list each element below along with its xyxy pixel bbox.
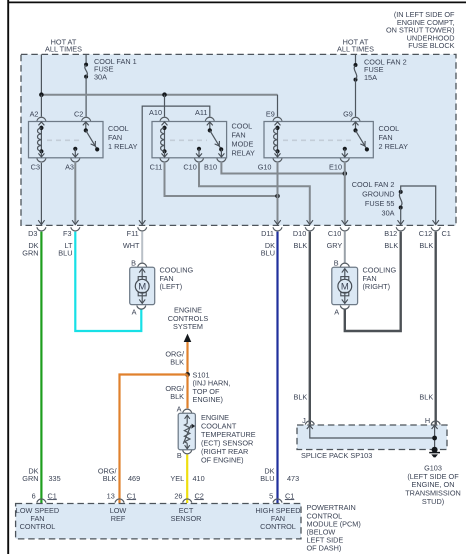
svg-text:BLU: BLU — [58, 248, 72, 257]
pin label 13 + connector C1 — [107, 491, 136, 500]
svg-text:F11: F11 — [127, 229, 139, 238]
ground G103 symbol — [429, 447, 440, 458]
relay K3 contact pin E10 — [342, 147, 348, 157]
svg-text:15A: 15A — [364, 73, 377, 82]
svg-text:B: B — [334, 259, 339, 268]
svg-text:F3: F3 — [63, 229, 72, 238]
svg-text:BLK: BLK — [170, 392, 184, 401]
connector arc J — [305, 421, 314, 425]
svg-text:H: H — [425, 416, 430, 425]
svg-text:2 RELAY: 2 RELAY — [379, 142, 409, 151]
connector arc PCM pin 26 — [183, 499, 192, 503]
svg-text:GRY: GRY — [327, 241, 343, 250]
connector arc F3 — [71, 227, 80, 231]
wire: ORG/BLK from engine controls to S101 — [186, 342, 188, 375]
connector arc B (ECT) — [183, 450, 192, 454]
wire: splice internal J leg — [307, 425, 435, 438]
svg-text:GRN: GRN — [22, 474, 38, 483]
svg-text:C2: C2 — [195, 491, 204, 500]
connector arc C10 (bottom) — [340, 227, 349, 231]
relay K2 mechanical link (dashed) — [170, 139, 207, 141]
svg-text:ENGINE): ENGINE) — [193, 395, 223, 404]
svg-text:SYSTEM: SYSTEM — [173, 322, 203, 331]
svg-text:C12: C12 — [419, 229, 432, 238]
connector arc A (right fan) — [340, 306, 349, 310]
svg-text:469: 469 — [128, 474, 140, 483]
node: C11/G10 junction — [275, 194, 280, 199]
svg-text:BLK: BLK — [419, 241, 433, 250]
svg-text:335: 335 — [49, 474, 61, 483]
connector arc D10 — [305, 227, 314, 231]
wire: ORG/BLK S101 to ECT sensor A — [186, 375, 188, 409]
connector arc G9 — [351, 117, 360, 121]
wire: A2 down to relay 1 — [40, 95, 42, 117]
relay K3 coil — [274, 122, 281, 157]
svg-text:M: M — [138, 282, 146, 293]
wire label ORG/BLK (lower) + circuit 469 — [98, 466, 140, 483]
wire: fuse 1 output down through bus to C2 — [85, 77, 87, 117]
relay K3 switch — [353, 122, 370, 151]
svg-text:B10: B10 — [204, 163, 217, 172]
svg-text:BLK: BLK — [294, 392, 308, 401]
svg-text:GRN: GRN — [22, 248, 38, 257]
connector arc C12 — [431, 227, 440, 231]
svg-text:BLK: BLK — [103, 474, 117, 483]
connector arc C11 — [160, 158, 169, 162]
wire: A3 to F3 — [72, 163, 78, 225]
svg-text:COOL: COOL — [232, 122, 253, 131]
svg-text:B: B — [131, 259, 136, 268]
svg-text:OF DASH): OF DASH) — [307, 544, 342, 553]
page frame top border — [8, 1, 466, 3]
svg-text:WHT: WHT — [123, 241, 140, 250]
svg-text:COOL FAN 2: COOL FAN 2 — [352, 180, 395, 189]
wire: GRY C10 to right fan motor B — [344, 232, 346, 263]
wire label DK BLU (lower) + circuit 473 — [260, 466, 299, 483]
motor M1: cooling fan left — [130, 267, 155, 304]
connector arc A11 — [205, 117, 214, 121]
wire: WHT F11 to left fan motor B — [141, 232, 143, 263]
svg-text:FUSE 55: FUSE 55 — [365, 199, 395, 208]
svg-text:D10: D10 — [293, 229, 306, 238]
wire: YEL ECT B to PCM pin 26 — [186, 455, 188, 503]
svg-text:COOL: COOL — [379, 124, 400, 133]
svg-text:MODE: MODE — [232, 140, 254, 149]
svg-text:A: A — [177, 404, 182, 413]
svg-text:CONTROL: CONTROL — [260, 522, 296, 531]
PCM box — [16, 504, 301, 539]
label: S101 — [193, 370, 231, 404]
connector arc E9 — [273, 117, 282, 121]
wire: C10 (relay) across and down to D10 — [199, 163, 313, 225]
wire: fuse 55 down to B12 — [398, 208, 404, 225]
connector arc PCM pin 6 — [37, 499, 46, 503]
svg-text:CONTROL: CONTROL — [20, 522, 56, 531]
connector arc H — [431, 421, 440, 425]
svg-text:1 RELAY: 1 RELAY — [108, 142, 138, 151]
wire: drop from bus to A10/A11 sub-bus — [164, 95, 166, 117]
relay K2 coil — [161, 122, 168, 157]
wire: ORG/BLK branch S101 to PCM pin 13 — [120, 375, 188, 504]
relay K1 mechanical link (dashed) — [47, 139, 83, 141]
fuse: COOL FAN 1 FUSE 30A — [84, 63, 88, 79]
svg-text:BLK: BLK — [419, 392, 433, 401]
underhood fuse block box — [21, 54, 456, 225]
node: bus junction at A10 drop — [162, 92, 167, 97]
label: hot at all times (left) — [45, 38, 82, 54]
wire label DK BLU (upper) — [261, 241, 275, 258]
connector arc C2 — [82, 117, 91, 121]
connector arc A (ECT) — [183, 409, 192, 413]
wire label DK GRN (lower) + circuit 335 — [22, 466, 60, 483]
wire: hot bus — [41, 94, 277, 96]
svg-text:5: 5 — [269, 491, 273, 500]
svg-text:(RIGHT): (RIGHT) — [363, 282, 391, 291]
relay K3 mechanical link (dashed) — [283, 139, 352, 141]
label: cooling fan right — [363, 266, 397, 292]
wire: sub-bus to F11 and A11 — [142, 106, 210, 117]
label: ECT sensor — [201, 413, 256, 465]
svg-text:YEL: YEL — [170, 474, 184, 483]
svg-text:30A: 30A — [382, 208, 395, 217]
label: cool fan 1 relay — [108, 124, 138, 151]
svg-text:(LEFT): (LEFT) — [160, 282, 183, 291]
svg-text:A11: A11 — [195, 108, 207, 117]
connector arc B12 — [396, 227, 405, 231]
svg-text:C10: C10 — [328, 229, 341, 238]
ECT sensor box — [178, 413, 195, 450]
wire: LT BLU F3 to left fan motor A — [75, 232, 141, 331]
relay K1 contact pin A3 — [72, 147, 78, 157]
wire: splice internal H leg — [432, 425, 438, 449]
svg-text:E10: E10 — [329, 163, 342, 172]
svg-text:C11: C11 — [150, 163, 163, 172]
relay K1 coil — [38, 122, 45, 157]
label: cool fan 2 relay — [379, 124, 409, 151]
svg-text:C1: C1 — [48, 491, 57, 500]
svg-text:M: M — [341, 282, 349, 293]
connector arc C3 — [37, 158, 46, 162]
label: engine controls system — [168, 306, 209, 332]
node: splice S101 — [185, 372, 190, 377]
fuse: COOL FAN 2 GROUND FUSE 55 30A — [399, 190, 403, 210]
connector arc D11 — [273, 227, 282, 231]
node: B10/E10 junction — [343, 171, 348, 176]
connector arc B (right fan) — [340, 263, 349, 267]
svg-text:G9: G9 — [343, 110, 353, 119]
relay K2 switch — [207, 122, 225, 157]
svg-text:A: A — [334, 308, 339, 317]
splice pack SP103 box — [297, 425, 447, 450]
svg-text:C1: C1 — [285, 491, 294, 500]
svg-text:410: 410 — [193, 474, 205, 483]
wire: B10 across to E10 column — [221, 163, 344, 174]
wire: BLK C12 to splice pack H — [435, 232, 437, 425]
label: cool fan 2 ground fuse — [352, 180, 395, 218]
svg-text:ALL TIMES: ALL TIMES — [45, 45, 82, 54]
label: powertrain control module — [307, 503, 361, 553]
relay K2 contact pin C10 — [196, 147, 202, 157]
svg-text:26: 26 — [174, 491, 182, 500]
svg-text:A2: A2 — [30, 110, 39, 119]
connector arc C10 (relay) — [195, 158, 204, 162]
wire label DK GRN (upper) — [22, 241, 38, 258]
svg-text:B12: B12 — [384, 229, 397, 238]
wire: bus drop to E9 — [277, 95, 279, 117]
svg-text:G10: G10 — [258, 163, 272, 172]
svg-text:BLK: BLK — [170, 358, 184, 367]
connector arc A10 — [160, 117, 169, 121]
wire: DK GRN D3 to PCM pin 6 — [40, 232, 42, 503]
relay K1 box: COOL FAN 1 RELAY — [29, 122, 104, 158]
svg-text:B: B — [177, 451, 182, 460]
label: cooling fan left — [160, 266, 194, 292]
wire label ORG/BLK (below S101) — [165, 384, 185, 401]
wire: C12 feed over fuse 55 — [401, 186, 439, 225]
label: G103 ground location — [405, 463, 461, 506]
pin label 26 + connector C2 — [174, 491, 203, 500]
svg-text:E9: E9 — [266, 110, 275, 119]
connector arc PCM pin 13 — [115, 499, 124, 503]
arrow: to engine controls system — [184, 334, 192, 342]
svg-text:C3: C3 — [31, 163, 40, 172]
svg-text:D11: D11 — [261, 229, 274, 238]
wire: battery feed into fuse 2 — [355, 54, 357, 65]
relay K3 box: COOL FAN 2 RELAY — [264, 122, 373, 158]
node: splice junction — [432, 436, 437, 441]
svg-text:BLK: BLK — [294, 241, 308, 250]
wire: battery feed to A2 — [40, 54, 42, 94]
wire: DK BLU D11 to PCM pin 5 — [276, 232, 278, 503]
svg-text:FUSE BLOCK: FUSE BLOCK — [408, 41, 454, 50]
pin label 6 + connector C1 — [32, 491, 57, 500]
label: cool fan 2 fuse — [364, 57, 407, 82]
node: bus junction at A2 — [39, 92, 44, 97]
svg-text:FAN: FAN — [232, 131, 246, 140]
connector arc A2 — [37, 117, 46, 121]
wire: BLK D10 to splice pack J — [309, 232, 311, 425]
wire label YEL + circuit 410 — [170, 474, 204, 483]
pin label 5 + connector C1 — [269, 491, 294, 500]
svg-text:BLU: BLU — [261, 248, 275, 257]
svg-text:C10: C10 — [183, 163, 196, 172]
label: cool fan mode relay — [232, 122, 256, 158]
wire label LT BLU (upper) — [58, 241, 73, 258]
svg-text:473: 473 — [287, 474, 299, 483]
svg-text:BLK: BLK — [384, 241, 398, 250]
motor M2: cooling fan right — [332, 267, 358, 304]
wire: BLK right fan motor A to B12 — [345, 232, 401, 331]
svg-text:SENSOR: SENSOR — [171, 514, 202, 523]
svg-text:BLU: BLU — [260, 474, 274, 483]
connector arc F11 — [138, 227, 147, 231]
label: underhood fuse block location — [386, 10, 455, 50]
svg-text:C2: C2 — [74, 110, 83, 119]
wire label ORG/BLK (above S101) — [165, 350, 185, 367]
svg-text:SPLICE PACK SP103: SPLICE PACK SP103 — [301, 451, 372, 460]
svg-text:GROUND: GROUND — [362, 189, 394, 198]
svg-text:13: 13 — [107, 491, 115, 500]
svg-text:6: 6 — [32, 491, 36, 500]
connector arc B (left fan) — [138, 263, 147, 267]
relay K2 box: COOL FAN MODE RELAY — [152, 122, 227, 158]
wire: fuse 2 output down to G9 — [355, 80, 357, 117]
page frame left border — [7, 0, 9, 554]
svg-text:FAN: FAN — [379, 133, 393, 142]
label: low speed fan control — [16, 506, 59, 531]
wire: battery feed into fuse 1 — [85, 54, 87, 64]
label: ect sensor input — [171, 506, 202, 523]
label: hot at all times (right) — [337, 38, 374, 54]
wire: C11 across to G10 column — [165, 163, 278, 196]
svg-text:RELAY: RELAY — [232, 149, 256, 158]
svg-text:A: A — [132, 308, 137, 317]
wire: G10 down to D11 — [274, 163, 280, 225]
label: low ref — [110, 506, 127, 523]
label: cool fan 1 fuse — [94, 57, 137, 82]
svg-text:A3: A3 — [65, 163, 74, 172]
svg-text:A10: A10 — [149, 108, 162, 117]
wire: sub-bus to F11 — [139, 116, 145, 225]
wire: E10 down to C10 connector — [342, 163, 348, 225]
label: high speed fan control — [255, 506, 300, 531]
connector arc D3 — [37, 227, 46, 231]
svg-text:30A: 30A — [94, 72, 107, 81]
connector arc A (left fan) — [137, 306, 146, 310]
connector arc A3 — [71, 158, 80, 162]
svg-text:C1: C1 — [127, 491, 136, 500]
connector arc E10 — [340, 158, 349, 162]
connector arc B10 — [217, 158, 226, 162]
svg-text:OF ENGINE): OF ENGINE) — [201, 455, 244, 464]
svg-text:REF: REF — [111, 514, 126, 523]
svg-text:STUD): STUD) — [422, 497, 444, 506]
svg-text:ALL TIMES: ALL TIMES — [337, 45, 374, 54]
svg-text:COOL: COOL — [108, 124, 129, 133]
svg-text:D3: D3 — [28, 229, 37, 238]
relay K1 switch — [83, 122, 99, 151]
wire: C3 to D3 — [38, 163, 44, 225]
fuse: COOL FAN 2 FUSE 15A — [354, 63, 358, 82]
connector arc G10 — [273, 158, 282, 162]
connector arc PCM pin 5 — [273, 499, 282, 503]
svg-text:FAN: FAN — [108, 133, 122, 142]
svg-text:C1: C1 — [442, 229, 451, 238]
